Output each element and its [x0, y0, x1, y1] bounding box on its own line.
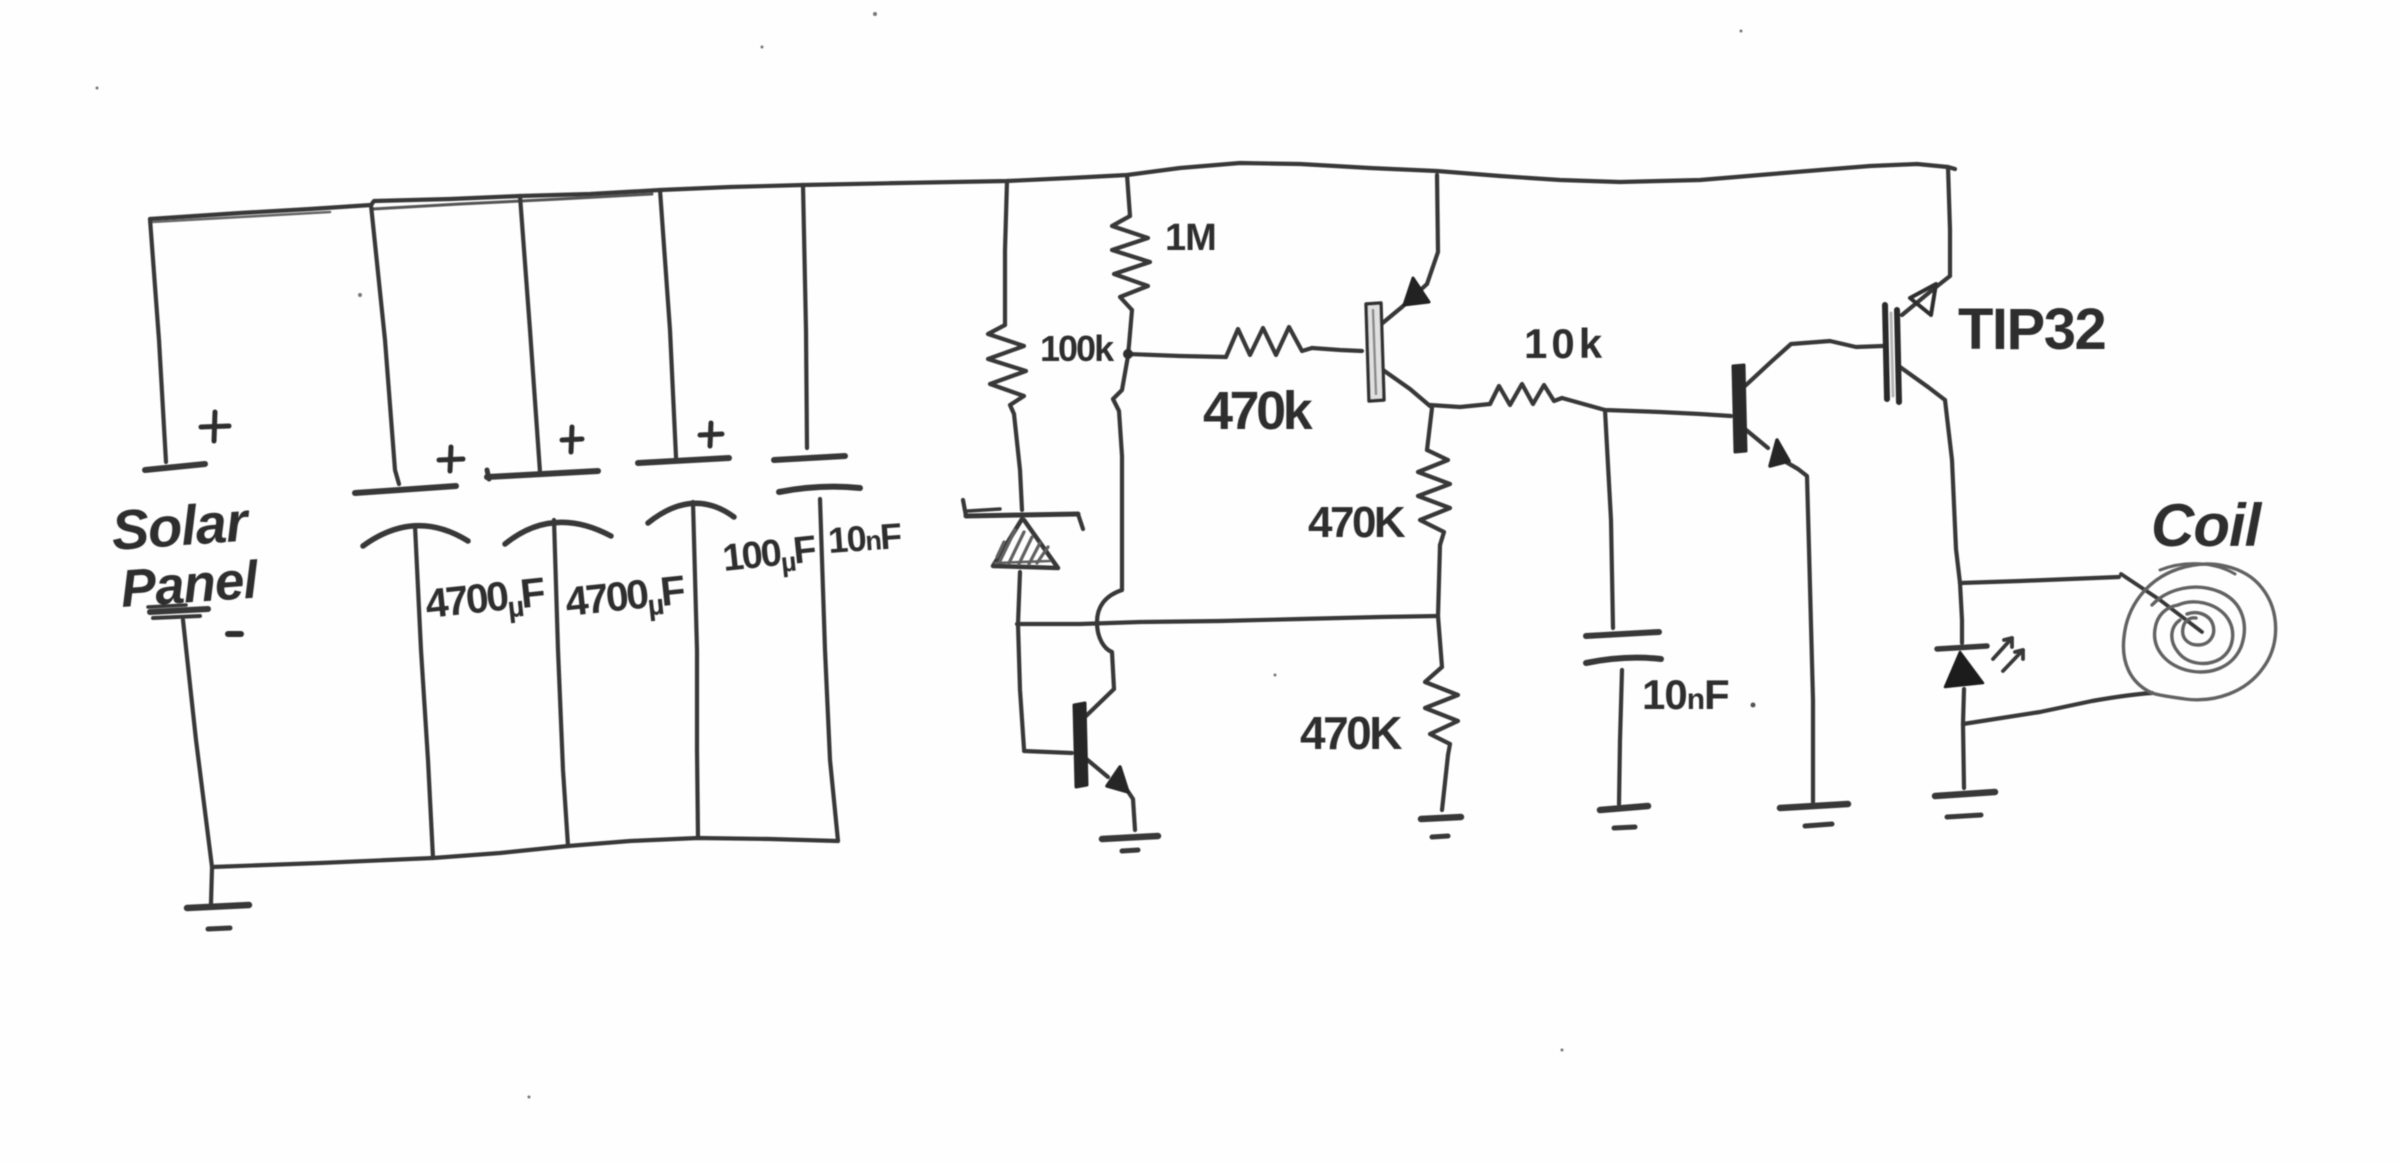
svg-text:Coil: Coil — [2151, 492, 2263, 559]
svg-text:100k: 100k — [1040, 328, 1115, 369]
svg-text:10nF: 10nF — [827, 515, 903, 561]
svg-text:Panel: Panel — [119, 550, 261, 619]
svg-text:4700µF: 4700µF — [423, 569, 547, 633]
svg-text:TIP32: TIP32 — [1958, 297, 2105, 362]
svg-text:Solar: Solar — [109, 489, 252, 562]
svg-text:4700µF: 4700µF — [563, 567, 687, 631]
svg-text:100µF: 100µF — [721, 528, 818, 583]
svg-text:10k: 10k — [1524, 320, 1606, 367]
svg-text:1M: 1M — [1165, 217, 1216, 259]
svg-text:470K: 470K — [1300, 707, 1402, 759]
svg-text:470K: 470K — [1308, 498, 1406, 547]
svg-text:10nF: 10nF — [1642, 671, 1729, 718]
svg-text:470k: 470k — [1203, 381, 1314, 441]
